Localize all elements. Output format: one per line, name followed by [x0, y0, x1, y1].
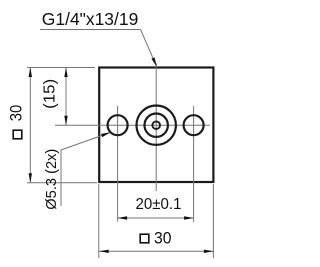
part outline square 30x30	[99, 68, 213, 183]
svg-text:30: 30	[154, 230, 172, 248]
leader arrow G1/4	[151, 57, 156, 66]
arrow up dim 30 left	[29, 68, 32, 78]
vertical centerline center hole	[155, 64, 157, 192]
svg-text:Ø5.3 (2x): Ø5.3 (2x)	[44, 149, 60, 210]
bottom-left extension line	[27, 182, 97, 184]
arrow down dim 30 left	[29, 173, 32, 183]
extension line bottom right corner	[212, 184, 214, 258]
horizontal centerline through holes	[55, 124, 210, 126]
leader line G1/4 slant	[141, 30, 157, 66]
dimension line square 30 bottom	[99, 250, 213, 252]
vertical centerline / extension line left hole	[117, 106, 119, 222]
label square symbol left rotated	[13, 130, 22, 139]
top extension line	[27, 67, 95, 69]
svg-text:20±0.1: 20±0.1	[136, 196, 182, 213]
svg-text:(15): (15)	[42, 79, 59, 109]
left hole circle Ø5.3	[108, 115, 128, 135]
label square symbol bottom	[140, 234, 149, 243]
dimension line 20±0.1	[118, 217, 194, 219]
svg-text:G1/4"x13/19: G1/4"x13/19	[42, 9, 139, 29]
arrow down dim (15)	[64, 116, 67, 126]
leader arrow Ø5.3	[101, 132, 111, 137]
arrow left dim 20	[118, 216, 128, 219]
extension line bottom left corner	[98, 184, 100, 258]
vertical centerline / extension line right hole	[193, 106, 195, 222]
dimension line square 30 left	[29, 68, 31, 183]
center hole outer circle	[137, 106, 176, 145]
arrow up dim (15)	[64, 68, 67, 78]
leader line Ø5.3 slant	[61, 133, 110, 150]
leader line G1/4 underline	[40, 29, 141, 31]
center hole inner circle	[152, 121, 160, 129]
right hole circle Ø5.3	[184, 115, 204, 135]
center hole middle circle	[145, 114, 168, 137]
arrow right dim 30 bottom	[204, 250, 214, 253]
svg-text:30: 30	[8, 105, 26, 122]
arrow right dim 20	[184, 216, 194, 219]
leader line Ø5.3 landing	[60, 150, 62, 206]
dimension line (15)	[65, 68, 67, 126]
arrow left dim 30 bottom	[99, 250, 109, 253]
